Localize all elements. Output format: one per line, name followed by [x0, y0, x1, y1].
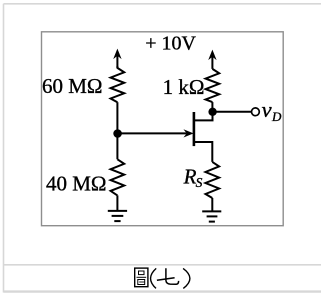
caption 圖(七) — [135, 268, 190, 288]
wire left supply to resistor 60M — [116, 66, 118, 69]
svg-text:+ 10V: + 10V — [145, 33, 196, 55]
wire node A to resistor 40M — [116, 134, 118, 160]
ground left — [108, 211, 127, 221]
svg-text:R: R — [183, 164, 197, 188]
wire 60M to node A — [116, 102, 118, 133]
resistor 60 Mohm — [111, 68, 125, 102]
supply arrow right — [209, 50, 216, 69]
circuit bounding box — [42, 32, 284, 226]
svg-text:v: v — [262, 97, 272, 122]
label 60 Mohm — [42, 74, 103, 98]
wire drain to output terminal — [213, 111, 252, 113]
output terminal (open circle) — [252, 108, 260, 116]
resistor RS — [206, 162, 220, 198]
svg-text:S: S — [196, 175, 203, 190]
svg-text:1 kΩ: 1 kΩ — [163, 75, 205, 99]
resistor 40 Mohm — [111, 159, 125, 195]
node D junction dot (drain) — [208, 108, 216, 116]
wire 1k to node D — [211, 102, 213, 112]
label +10V supply — [145, 33, 196, 55]
svg-text:60 MΩ: 60 MΩ — [42, 74, 103, 98]
ground right — [202, 211, 221, 221]
supply arrow left — [114, 49, 121, 68]
svg-text:D: D — [271, 109, 282, 124]
label 40 Mohm — [46, 171, 107, 195]
label 1 kohm — [163, 75, 205, 99]
wire RS to ground — [211, 198, 213, 211]
resistor 1 kohm — [206, 69, 220, 102]
wire 40M to ground — [116, 195, 118, 211]
label RS — [183, 164, 203, 190]
transistor (MOSFET) — [194, 112, 213, 162]
label vD output — [262, 97, 282, 124]
node A junction dot — [113, 129, 122, 138]
wire gate (node A to MOSFET gate) with arrow — [118, 130, 193, 137]
svg-text:40 MΩ: 40 MΩ — [46, 171, 107, 195]
